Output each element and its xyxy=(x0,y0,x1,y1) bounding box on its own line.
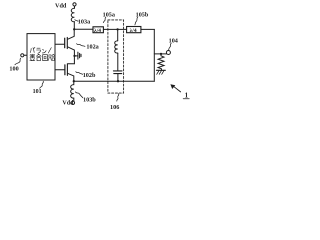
wire inductor to capacitor xyxy=(117,53,119,71)
resistor load xyxy=(158,54,164,70)
wire balun to Q2 gate xyxy=(55,69,64,71)
leader for 102b xyxy=(76,72,83,75)
wire input to balun xyxy=(24,54,27,56)
wire lambda4 2 to right corner xyxy=(141,28,154,30)
ground (hatched) under load xyxy=(156,69,165,71)
output terminal circle xyxy=(166,51,170,55)
wire common source to Q2 xyxy=(67,63,74,65)
svg-text:103b: 103b xyxy=(83,96,96,103)
figure label 1 xyxy=(185,92,189,100)
leader for 104 xyxy=(169,43,172,50)
balun/matching box 101 xyxy=(27,34,55,80)
leader for 103b xyxy=(75,92,82,98)
wire top rail to lambda4 box 1 xyxy=(74,28,93,30)
label 103a xyxy=(78,18,90,25)
label 106 xyxy=(110,104,119,111)
wire to sideways ground xyxy=(75,55,78,57)
leader for 102a xyxy=(77,44,85,47)
figure arrow xyxy=(173,86,180,92)
node load dot xyxy=(160,53,162,55)
quarter-wave line 105b box xyxy=(127,27,141,33)
input port 100 xyxy=(21,54,24,57)
svg-text:105a: 105a xyxy=(103,12,115,19)
wire balun to Q1 gate xyxy=(55,43,64,45)
leader for 100 xyxy=(15,58,21,65)
capacitor in 106 xyxy=(113,70,122,72)
svg-text:102a: 102a xyxy=(86,44,98,51)
node drain2 dot xyxy=(73,80,75,82)
svg-text:λ/4: λ/4 xyxy=(130,28,137,34)
label 103b xyxy=(83,96,96,103)
wire node M down xyxy=(117,29,119,40)
label 105b xyxy=(136,12,149,19)
svg-text:100: 100 xyxy=(9,65,18,72)
wire capacitor to bottom rail xyxy=(117,74,119,82)
label 101 xyxy=(33,89,42,95)
Vdd terminal bottom xyxy=(71,101,74,104)
svg-text:104: 104 xyxy=(169,37,178,44)
svg-text:Vdd: Vdd xyxy=(62,101,74,107)
wire between lambda4 boxes xyxy=(103,28,126,30)
transistor Q1 channel bar xyxy=(66,37,68,48)
transistor Q2 drain tap xyxy=(68,73,74,81)
svg-text:Vdd: Vdd xyxy=(55,2,67,9)
svg-text:103a: 103a xyxy=(78,18,90,25)
label 102a xyxy=(86,44,98,51)
label 104 xyxy=(169,37,178,44)
label Vdd top xyxy=(55,2,67,9)
dashed box 106 xyxy=(108,20,124,93)
svg-text:λ/4: λ/4 xyxy=(94,28,101,34)
svg-text:102b: 102b xyxy=(83,72,96,79)
label Vdd bottom xyxy=(62,101,74,107)
balun box text line1 (katakana baran/) xyxy=(30,47,51,53)
transistor Q2 (102b) gate bar xyxy=(64,65,66,75)
leader for 103a xyxy=(75,20,78,22)
leader for 101 xyxy=(40,81,44,88)
label 105a xyxy=(103,12,115,19)
transistor Q2 channel bar xyxy=(66,64,68,75)
wire output branch xyxy=(154,53,166,55)
transistor Q1 source tap xyxy=(68,47,75,64)
node drain1 dot xyxy=(73,28,75,30)
quarter-wave line 105a box xyxy=(93,27,103,33)
label 100 xyxy=(9,65,18,72)
wire choke to drain rail xyxy=(73,22,75,30)
node 106 bottom dot xyxy=(117,80,119,82)
wire Vdd to choke xyxy=(74,6,76,8)
leader for 105a xyxy=(103,17,106,22)
Vdd terminal top xyxy=(73,3,76,6)
leader for 106 xyxy=(117,94,119,101)
inductor 103a (choke) xyxy=(71,8,74,21)
ground (sideways) at common source xyxy=(77,52,79,59)
transistor Q1 (102a) gate bar xyxy=(64,38,66,48)
label 102b xyxy=(83,72,96,79)
inductor 103b (choke) xyxy=(71,81,74,101)
node common source dot xyxy=(73,55,75,57)
inductor in 106 xyxy=(115,41,118,53)
svg-text:101: 101 xyxy=(33,89,42,95)
svg-text:106: 106 xyxy=(110,104,119,111)
leader for 105b xyxy=(135,17,138,25)
transistor Q1 drain tap xyxy=(68,29,74,39)
node M dot xyxy=(116,28,118,30)
wire right vertical xyxy=(153,29,155,81)
wire bottom rail xyxy=(74,80,155,82)
balun box text line2 (kanji matching circuit) xyxy=(30,54,55,61)
